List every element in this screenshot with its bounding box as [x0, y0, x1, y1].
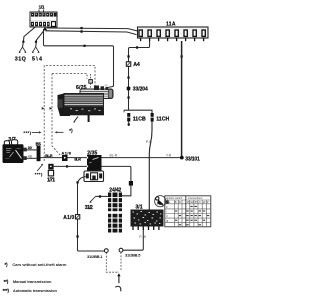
tick on 33/101 wire	[181, 55, 183, 57]
11A pins	[141, 38, 204, 41]
svg-text:33/204: 33/204	[133, 87, 148, 93]
dashed engine-bay boundary (outer)	[44, 66, 95, 162]
tick	[35, 41, 37, 43]
key symbol	[155, 196, 169, 207]
chassis hook	[115, 286, 121, 291]
svg-text:***): ***)	[35, 172, 43, 177]
wire ignition pin to ground	[123, 230, 144, 250]
wire 24/42 left to 31/2 arrow	[96, 195, 109, 197]
tick	[22, 41, 24, 43]
svg-text:III: III	[166, 219, 168, 223]
connector strip 11A	[138, 27, 209, 38]
svg-text:X: X	[199, 200, 201, 204]
svg-text:R: R	[179, 200, 181, 204]
svg-text:P: P	[207, 200, 209, 204]
svg-text:BL-R: BL-R	[110, 153, 118, 157]
svg-text:31Q: 31Q	[15, 56, 26, 62]
fork connector 5\4	[32, 47, 42, 62]
svg-text:1/1: 1/1	[39, 5, 45, 10]
wire 11A pin to splice 33/101	[181, 41, 183, 156]
connector half 11CH	[150, 113, 169, 122]
svg-text:Ignition switch: Ignition switch	[166, 196, 183, 200]
legend note 1	[5, 262, 67, 267]
svg-text:5\4: 5\4	[32, 56, 42, 62]
ignition switch pins	[133, 227, 159, 231]
pigtail (cars w/o alarm)	[74, 117, 78, 122]
battery	[3, 140, 24, 163]
tick	[127, 96, 129, 98]
main body	[64, 94, 104, 113]
arrow into 1/1 bottom	[43, 27, 47, 31]
tick	[66, 165, 68, 167]
dashed boundary (inner)	[52, 74, 87, 156]
small marks on dashed boundaries	[42, 107, 45, 110]
starter motor drawing	[58, 84, 114, 123]
svg-text:A4: A4	[133, 62, 140, 68]
svg-text:BL-R: BL-R	[45, 154, 53, 158]
fork connector 31Q	[15, 47, 27, 62]
solenoid	[80, 89, 113, 99]
legend note 2	[4, 279, 52, 284]
splice 33/101	[180, 156, 184, 160]
svg-text:Y-R: Y-R	[166, 154, 172, 158]
ground arrow	[118, 276, 120, 283]
svg-text:**): **)	[4, 279, 9, 284]
wire B (1/1 to 11A strip)	[46, 31, 137, 35]
legend note 3	[3, 288, 58, 293]
svg-text:Manual transmission: Manual transmission	[13, 279, 52, 284]
wire relay to A1/0	[78, 177, 105, 252]
svg-text:B: B	[175, 200, 177, 204]
relay output wires right	[102, 157, 181, 159]
svg-text:***): ***)	[3, 288, 10, 293]
heavy cable stub down	[88, 112, 90, 122]
tick	[127, 76, 129, 78]
relay wire right lower to 24/42	[102, 166, 131, 181]
arrow pointing left into inner boundary	[57, 131, 64, 133]
svg-text:*): *)	[69, 128, 73, 133]
tick wire B	[80, 30, 82, 32]
drive housing	[58, 94, 71, 117]
ignition switch 3/1	[131, 210, 164, 227]
svg-text:Connections: Connections	[188, 196, 203, 200]
wire branch to 11CH	[124, 110, 152, 113]
wire 11A pin2 to A4 column	[129, 41, 150, 110]
svg-text:1/71: 1/71	[47, 178, 55, 184]
svg-text:31/2BB.1: 31/2BB.1	[87, 254, 103, 259]
wire to 31Q fork	[23, 27, 36, 47]
wire A (1/1 to 11A strip)	[47, 28, 138, 31]
tick	[76, 235, 78, 237]
svg-text:Automatic transmission: Automatic transmission	[13, 288, 58, 293]
svg-text:P-W: P-W	[139, 235, 146, 239]
main wire battery bar to relay (BL-R)	[41, 157, 88, 159]
base	[70, 113, 104, 116]
svg-text:P-R: P-R	[146, 140, 152, 144]
svg-text:Cars without anti-theft alarm: Cars without anti-theft alarm	[12, 262, 66, 267]
svg-text:11CB: 11CB	[133, 116, 146, 122]
component 1/1 box	[30, 12, 57, 27]
ground eyelet 31/2BB.5	[119, 248, 123, 252]
connector half 11CB	[127, 113, 146, 126]
tick wire A	[80, 27, 82, 29]
dashed drop with terminal box 98	[90, 74, 92, 88]
svg-text:BL-R: BL-R	[74, 158, 81, 162]
tick	[76, 181, 78, 183]
note ***) arrow at dashed boundary	[24, 130, 42, 135]
splice 33/204	[127, 87, 148, 93]
relay 2/35	[84, 155, 104, 182]
position table	[165, 196, 211, 227]
wire C (1/1 down-right to starter solenoid)	[44, 29, 114, 88]
connector 1/71	[47, 164, 55, 184]
svg-text:A1/0: A1/0	[63, 215, 74, 221]
connector A4	[126, 62, 140, 68]
svg-text:31/2BB.5: 31/2BB.5	[125, 253, 141, 258]
svg-text:A1/0: A1/0	[62, 151, 72, 155]
connector A1/0	[63, 215, 80, 221]
svg-text:31/2: 31/2	[85, 205, 93, 211]
tick	[136, 46, 138, 48]
dashed ground runs	[106, 253, 119, 273]
tick wire C	[83, 45, 85, 47]
note ***) arrow near bar	[35, 164, 43, 177]
svg-text:***): ***)	[24, 130, 32, 135]
wire to 5\4 fork	[36, 30, 44, 47]
svg-text:33/101: 33/101	[185, 157, 200, 163]
ground eyelet 31/2BB.1	[104, 249, 108, 253]
pin stubs under 1/1 label	[39, 10, 44, 13]
tick on A4 wire	[127, 55, 129, 57]
svg-text:11CH: 11CH	[156, 116, 169, 122]
wire 1/71 to relay	[54, 165, 87, 167]
wire 11CH down to ignition switch	[149, 122, 152, 210]
svg-text:pos: pos	[166, 201, 171, 204]
